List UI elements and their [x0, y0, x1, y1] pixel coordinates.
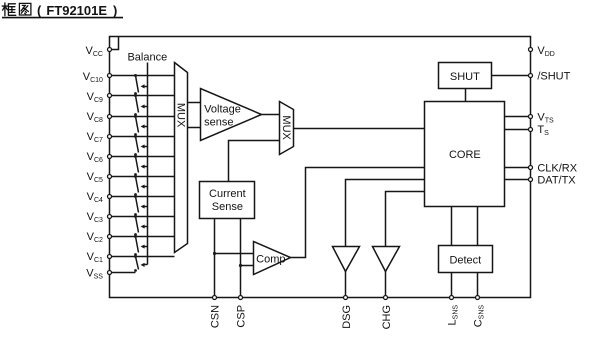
switch S9 control arrow	[145, 246, 148, 248]
wire VC1	[110, 256, 175, 258]
wire MUX1 out top	[188, 102, 201, 104]
mux M2	[280, 102, 294, 155]
wire detect to LSNS pin	[451, 273, 453, 298]
pin VC1 terminal circle	[108, 255, 112, 259]
wire DAT/TX	[505, 179, 531, 181]
svg-text:Sense: Sense	[212, 201, 243, 213]
pin CSN terminal circle	[213, 296, 217, 300]
switch S3 control arrow	[145, 126, 148, 128]
svg-text:/SHUT: /SHUT	[537, 70, 570, 82]
switch S8 blade	[136, 217, 139, 233]
switch S10 control arrow	[145, 264, 148, 266]
svg-text:VC4: VC4	[87, 191, 103, 204]
pin VDD terminal circle	[529, 48, 533, 52]
wire CSP to comp	[241, 265, 254, 267]
switch S3 blade	[136, 117, 139, 133]
wire MUX1 out bottom	[188, 127, 201, 129]
switch S1 top contact dot	[134, 74, 137, 77]
wire VC6	[110, 156, 175, 158]
switch S7 blade	[136, 197, 139, 213]
svg-text:VC5: VC5	[87, 171, 103, 184]
label pin CHG	[381, 305, 393, 329]
balance control line	[147, 63, 149, 265]
label pin CSN	[209, 305, 221, 328]
svg-text:VC3: VC3	[87, 211, 103, 224]
svg-text:VDD: VDD	[537, 45, 554, 58]
pin /SHUT terminal circle	[529, 74, 533, 78]
svg-text:Balance: Balance	[127, 51, 167, 63]
svg-text:MUX: MUX	[280, 115, 292, 140]
svg-text:Comp: Comp	[256, 253, 285, 265]
switch S1 bottom contact dot	[134, 92, 137, 95]
pins group	[108, 48, 533, 300]
pin VCC terminal circle	[108, 48, 112, 52]
pin VC4 terminal circle	[108, 195, 112, 199]
mux M1	[175, 63, 188, 253]
label pin DSG	[341, 305, 353, 329]
switch S6 blade	[136, 177, 139, 193]
switch S1 control arrow	[145, 86, 148, 88]
pin VC7 terminal circle	[108, 135, 112, 139]
switch S5 blade	[136, 157, 139, 173]
switch S4 control arrow	[145, 146, 148, 148]
wire CHG out	[385, 272, 387, 298]
pin VC6 terminal circle	[108, 155, 112, 159]
wire comp out to CORE	[291, 168, 425, 258]
svg-text:LSNS: LSNS	[446, 305, 459, 326]
svg-text:CSNS: CSNS	[472, 305, 485, 328]
svg-text:VC9: VC9	[87, 91, 103, 104]
wire VC2	[110, 236, 175, 238]
switch S3 bottom contact dot	[134, 133, 137, 136]
svg-text:Voltage: Voltage	[204, 103, 241, 115]
pin CSNS terminal circle	[476, 296, 480, 300]
pin VSS terminal circle	[108, 271, 112, 275]
wire CORE to detect CSNS	[477, 207, 479, 246]
wire VTS	[505, 116, 531, 118]
svg-text:TS: TS	[537, 124, 549, 137]
wire VC5	[110, 176, 175, 178]
svg-text:MUX: MUX	[175, 103, 187, 128]
svg-text:VC6: VC6	[87, 151, 103, 164]
wire CSN	[214, 219, 216, 298]
labels group	[83, 45, 578, 330]
op-amp voltage sense	[201, 89, 262, 141]
wire detect to CSNS pin	[477, 273, 479, 298]
svg-text:sense: sense	[204, 116, 233, 128]
node CSP junction	[239, 264, 242, 267]
pin DAT/TX terminal circle	[529, 178, 533, 182]
wire VC4	[110, 196, 175, 198]
switch S10 top contact dot	[134, 255, 137, 258]
switch S1 blade	[136, 76, 139, 93]
wire CSP	[240, 219, 242, 298]
svg-text:VC1: VC1	[87, 251, 103, 264]
switch S6 control arrow	[145, 186, 148, 188]
switch S4 top contact dot	[134, 135, 137, 138]
wire voltage sense out	[262, 114, 280, 116]
driver CHG triangle	[373, 247, 400, 272]
title 框图 (block diagram) CJK glyphs	[2, 3, 31, 16]
wire VC10	[110, 75, 175, 77]
wire CSN to comp	[215, 253, 254, 255]
switch S9 blade	[136, 237, 139, 253]
switch S2 top contact dot	[134, 94, 137, 97]
switch S2 bottom contact dot	[134, 113, 137, 116]
svg-text:CSP: CSP	[235, 305, 247, 328]
wire VSS	[110, 272, 136, 274]
wire TS	[505, 129, 531, 131]
pin CLK/RX terminal circle	[529, 166, 533, 170]
svg-text:CSN: CSN	[209, 305, 221, 328]
wire VC8	[110, 116, 175, 118]
node CSN junction	[213, 252, 216, 255]
pin TS terminal circle	[529, 127, 533, 131]
balance switches group	[134, 74, 148, 272]
wire CORE to detect LSNS	[451, 207, 453, 246]
outer border box	[110, 37, 531, 298]
wire DSG out	[345, 272, 347, 298]
switch S6 top contact dot	[134, 175, 137, 178]
wire DSG driver input from CORE	[346, 180, 425, 247]
svg-text:VC8: VC8	[87, 111, 103, 124]
wire VC9	[110, 95, 175, 97]
switch S10 bottom contact dot	[134, 269, 137, 272]
block CORE	[425, 102, 505, 207]
switch S8 control arrow	[145, 226, 148, 228]
svg-text:VC2: VC2	[87, 231, 103, 244]
wire VCC to top rail	[110, 37, 119, 50]
svg-text:CLK/RX: CLK/RX	[537, 162, 577, 174]
svg-text:CHG: CHG	[381, 305, 393, 329]
switch S5 bottom contact dot	[134, 173, 137, 176]
svg-text:VTS: VTS	[537, 112, 554, 125]
wire VC7	[110, 136, 175, 138]
pin VTS terminal circle	[529, 115, 533, 119]
driver DSG triangle	[333, 247, 360, 272]
pin LSNS terminal circle	[450, 296, 454, 300]
switch S7 control arrow	[145, 206, 148, 208]
svg-text:Detect: Detect	[449, 254, 481, 266]
switch S3 top contact dot	[134, 115, 137, 118]
switch S7 top contact dot	[134, 195, 137, 198]
mux M2 label	[280, 115, 292, 140]
svg-text:VC10: VC10	[83, 71, 103, 84]
wire SHUT to /SHUT pin	[492, 75, 531, 77]
pin VC8 terminal circle	[108, 115, 112, 119]
block current sense	[200, 182, 255, 219]
label pin CSNS	[472, 305, 485, 328]
pin CHG terminal circle	[384, 296, 388, 300]
mux M1 label	[175, 103, 187, 128]
svg-text:DSG: DSG	[341, 305, 353, 329]
wire MUX2 out to CORE	[294, 128, 425, 130]
svg-text:Current: Current	[209, 188, 246, 200]
switch S7 bottom contact dot	[134, 213, 137, 216]
switch S6 bottom contact dot	[134, 193, 137, 196]
switch S4 bottom contact dot	[134, 153, 137, 156]
switch S4 blade	[136, 137, 139, 153]
switch S10 blade	[136, 257, 139, 270]
switch S5 control arrow	[145, 166, 148, 168]
switch S8 bottom contact dot	[134, 233, 137, 236]
switch S9 top contact dot	[134, 235, 137, 238]
switch S5 top contact dot	[134, 155, 137, 158]
svg-text:CORE: CORE	[449, 149, 481, 161]
pin VC3 terminal circle	[108, 215, 112, 219]
switch S2 blade	[136, 96, 139, 113]
pin DSG terminal circle	[344, 296, 348, 300]
wire current sense to MUX2	[229, 141, 280, 182]
svg-text:VC7: VC7	[87, 131, 103, 144]
switch S2 control arrow	[145, 106, 148, 108]
wire CLK/RX	[505, 167, 531, 169]
title underline	[2, 17, 123, 19]
svg-text:VCC: VCC	[85, 45, 102, 58]
pin VC5 terminal circle	[108, 175, 112, 179]
block SHUT	[439, 63, 492, 89]
label pin CSP	[235, 305, 247, 328]
switch S9 bottom contact dot	[134, 253, 137, 256]
wire SHUT to CORE	[465, 89, 467, 102]
block detect	[439, 246, 493, 273]
wire VC3	[110, 216, 175, 218]
switch S8 top contact dot	[134, 215, 137, 218]
comparator comp	[254, 242, 291, 275]
label pin LSNS	[446, 305, 459, 326]
svg-text:VSS: VSS	[86, 268, 103, 281]
pin VC2 terminal circle	[108, 235, 112, 239]
pin CSP terminal circle	[239, 296, 243, 300]
pin VC10 terminal circle	[108, 74, 112, 78]
svg-text:SHUT: SHUT	[450, 71, 480, 83]
svg-text:(FT92101E): (FT92101E)	[37, 3, 117, 18]
svg-text:DAT/TX: DAT/TX	[537, 175, 576, 187]
wire CHG driver input from CORE	[386, 192, 425, 247]
pin VC9 terminal circle	[108, 94, 112, 98]
